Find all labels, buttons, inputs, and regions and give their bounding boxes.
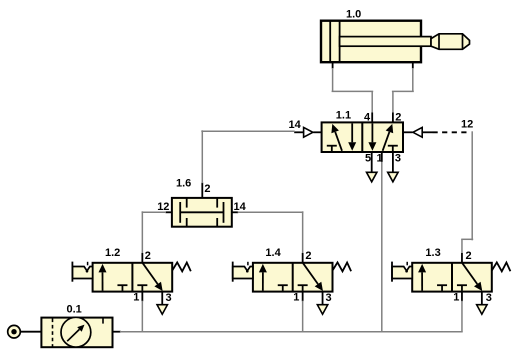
wire shuttle port 12 to valve 1.2 port 2 [142,211,166,253]
valve V4 (1.4) port 1 stub [302,292,304,302]
svg-text:1.6: 1.6 [176,178,191,190]
wire cylinder right port to valve 1.1 port 2 [392,68,414,113]
label port 14 of 1.6 [234,201,247,213]
svg-text:2: 2 [145,250,151,262]
valve V3 (1.3) pushbutton [392,262,412,282]
exhaust triangle of V4 (1.4) [317,305,327,315]
svg-text:0.1: 0.1 [67,303,82,315]
cylinder C1 right port stub [412,63,414,69]
svg-text:3: 3 [486,292,492,304]
valve V2 (1.2) port 1 stub [141,292,143,302]
svg-text:1.1: 1.1 [336,109,351,121]
valve U1 position divider [361,122,363,152]
shuttle valve V6 right seal [223,202,225,223]
svg-text:14: 14 [234,201,247,213]
svg-text:3: 3 [166,292,172,304]
compressed air source [8,325,21,338]
valve V2 (1.2) port 3 line [161,292,163,305]
label port 1 of 1.4 [293,292,299,304]
valve V3 (1.3) return spring [492,262,511,271]
service unit F1 outlet stub [113,331,121,333]
valve V3 (1.3) body [412,263,492,292]
valve V3 (1.3) port 1 stub [461,292,463,302]
shuttle valve V6 middle channel [180,211,223,213]
valve V3 (1.3) position divider [451,263,453,292]
svg-text:1.2: 1.2 [105,247,120,259]
svg-text:3: 3 [395,153,401,165]
shuttle valve V6 body (1.6) [172,198,232,227]
valve V4 (1.4) left box blocked port [278,285,288,291]
valve U1 left box flow arrow 1-4 [331,124,342,151]
valve V4 (1.4) body [253,263,333,292]
label port 1 of 1.3 [453,292,459,304]
svg-text:2: 2 [204,183,210,195]
label 1.1 [336,109,351,121]
shuttle valve V6 port 14 stub [232,211,238,213]
valve U1 right box flow arrow 4-5 [368,124,376,151]
valve V3 (1.3) port 3 line [481,292,483,305]
svg-text:12: 12 [157,201,169,213]
label 1.3 [425,247,440,259]
label port 1 of 1.2 [133,292,139,304]
valve V3 (1.3) right box flow arrow 2-3 [462,263,482,291]
wire cylinder left port to valve 1.1 port 4 [332,68,374,113]
label port 5 [365,153,371,165]
shuttle valve V6 left seal [179,202,181,223]
valve V2 (1.2) right box flow arrow 2-3 [143,263,163,291]
valve 1.4 port 2 stub [302,253,304,263]
svg-text:12: 12 [461,118,473,130]
valve V3 (1.3) left box blocked port [437,285,447,291]
cylinder C1 left port stub [332,63,334,69]
svg-text:4: 4 [364,111,371,123]
label port 2 of 1.1 [395,111,401,123]
valve U1 body (1.1) [322,122,403,152]
wire valve V4 (1.4) port 1 to supply [302,301,304,332]
valve U1 pilot 12 dashed line [422,131,471,133]
svg-text:1.4: 1.4 [265,247,281,259]
wire shuttle port 14 to valve 1.4 port 2 [238,211,304,253]
valve V2 (1.2) body [93,263,173,292]
valve V4 (1.4) port 3 line [322,292,324,305]
valve V4 (1.4) left box flow arrow 1-2 [259,264,267,291]
valve U1 port 5 line [371,152,373,172]
valve 1.1 port 2 stub [392,113,394,123]
label port 12 of 1.6 [157,201,169,213]
valve V4 (1.4) pushbutton [233,262,253,282]
svg-text:1: 1 [453,292,459,304]
label port 2 of 1.3 [466,250,472,262]
cylinder C1 piston rod [340,37,431,47]
valve 1.1 port 4 stub [371,113,373,123]
service unit F1 gauge [61,317,91,347]
valve U1 port 3 line [392,152,394,172]
valve V4 (1.4) return spring [333,262,352,271]
svg-text:5: 5 [365,153,371,165]
wire pilot 12 to valve 1.3 port 2 [461,131,473,253]
exhaust triangle of V2 (1.2) [157,305,167,315]
label 1.0 [346,9,361,21]
label port 2 of 1.4 [305,250,311,262]
label pilot 14 of 1.1 [289,119,302,131]
label port 3 of 1.3 [486,292,492,304]
exhaust triangle of V3 (1.3) [477,305,487,315]
svg-text:2: 2 [395,111,401,123]
wire valve 1.1 port 1 to supply line [381,162,383,332]
label port 2 of 1.6 [204,183,210,195]
shuttle valve V6 left seat [186,198,188,227]
wire valve V3 (1.3) port 1 to supply [461,301,463,332]
svg-text:14: 14 [289,119,302,131]
valve U1 port 1 stub [381,152,383,162]
svg-text:1: 1 [293,292,299,304]
exhaust triangle port 3 of 1.1 [388,172,398,182]
service unit F1 body (0.1) [41,318,112,348]
valve V2 (1.2) left box flow arrow 1-2 [99,264,107,291]
valve V4 (1.4) right box blocked port 1 [298,285,308,291]
svg-text:1.3: 1.3 [425,247,440,259]
svg-text:2: 2 [305,250,311,262]
shuttle valve V6 right seat [216,198,218,227]
label 1.2 [105,247,120,259]
label port 3 of 1.2 [166,292,172,304]
label pilot 12 of 1.1 [461,118,473,130]
valve 1.2 port 2 stub [141,253,143,263]
svg-text:1: 1 [133,292,139,304]
valve V2 (1.2) right box blocked port 1 [137,285,147,291]
supply line [120,331,463,333]
shuttle valve V6 port 12 stub [166,211,172,213]
label 0.1 [67,303,82,315]
wire valve V2 (1.2) port 1 to supply [141,301,143,332]
label 1.4 [265,247,281,259]
wire shuttle port 2 to pilot 14 [201,130,294,183]
label port 4 [364,111,371,123]
valve V4 (1.4) position divider [292,263,294,292]
label port 1 of 1.1 [377,153,383,165]
cylinder C1 piston [330,22,339,62]
valve V4 (1.4) right box flow arrow 2-3 [303,263,323,291]
wire source to service unit [20,331,41,333]
shuttle valve V6 port 2 stub [201,183,203,198]
valve U1 pilot 12 triangle [403,127,422,137]
valve 1.3 port 2 stub [461,253,463,263]
valve V3 (1.3) left box flow arrow 1-2 [418,264,426,291]
valve V2 (1.2) left box blocked port [117,285,127,291]
valve V2 (1.2) return spring [172,262,191,271]
cylinder C1 body (1.0) [321,21,421,63]
svg-text:2: 2 [466,250,472,262]
svg-text:1.0: 1.0 [346,9,361,21]
valve U1 left box flow arrow 2-3 [348,124,356,151]
service unit F1 top tick [102,319,104,324]
service unit F1 dashed separator [52,319,54,347]
label port 2 of 1.2 [145,250,151,262]
label 1.6 [176,178,191,190]
valve U1 right box flow arrow 1-2 [383,124,394,151]
valve U1 pilot 14 triangle [294,127,321,137]
valve V2 (1.2) pushbutton [72,262,92,282]
valve U1 right box blocked port 3 [388,146,398,152]
valve V3 (1.3) right box blocked port 1 [457,285,467,291]
svg-text:3: 3 [326,292,332,304]
exhaust triangle port 5 [367,172,377,182]
valve V2 (1.2) position divider [131,263,133,292]
valve U1 left box blocked port 5 [327,146,337,152]
label port 3 of 1.1 [395,153,401,165]
label port 3 of 1.4 [326,292,332,304]
cylinder C1 rod tool tip [431,34,470,50]
